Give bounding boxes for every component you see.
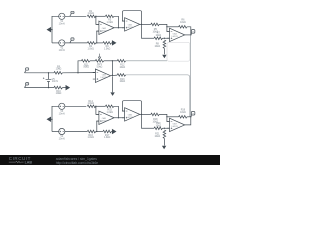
node dot A — [95, 16, 96, 17]
junction OA5 out — [118, 117, 119, 118]
wire R8 to ground — [163, 49, 165, 55]
wire in1 to OA3 - input — [25, 72, 96, 74]
wire node A to OA1 inverting input — [96, 21, 99, 24]
svg-text:LM741: LM741 — [127, 27, 134, 29]
potentiometer RV1 — [95, 60, 104, 63]
svg-text:1.0kΩ: 1.0kΩ — [104, 48, 111, 51]
resistor R8 (vertical to ground) — [163, 40, 166, 49]
svg-text:1.0kΩ: 1.0kΩ — [87, 12, 94, 15]
resistor R20 — [154, 127, 163, 130]
resistor R21 (vertical to ground) — [163, 130, 166, 139]
svg-text:LM741: LM741 — [101, 31, 108, 33]
wire in2 — [25, 87, 54, 89]
wire node C to OA5 - input — [96, 111, 99, 114]
svg-text:LM741: LM741 — [172, 36, 179, 38]
voltage source V2 — [59, 40, 65, 46]
wire long vertical (OA4 out down) — [190, 35, 192, 117]
node flag na — [70, 11, 74, 16]
svg-text:1.0kΩ: 1.0kΩ — [107, 21, 114, 24]
wire RV1 to branch node — [104, 60, 117, 62]
op-amp OA2 (buffer) — [122, 18, 140, 31]
svg-text:1.0kΩ: 1.0kΩ — [87, 136, 94, 139]
svg-text:LM741: LM741 — [127, 117, 134, 119]
junction OA1 out — [118, 27, 119, 28]
junction R19 tap — [166, 116, 167, 117]
svg-text:LM741: LM741 — [101, 77, 108, 79]
resistor R9 — [54, 72, 63, 75]
resistor R16 — [87, 130, 96, 133]
wire V2 right — [65, 42, 87, 44]
wire OA6 feedback box — [123, 101, 142, 115]
label V5 — [52, 78, 59, 83]
svg-text:10kΩ: 10kΩ — [119, 80, 125, 83]
logo LAB line — [9, 161, 24, 163]
op-amp OA4 — [167, 28, 185, 41]
resistor R10 — [54, 86, 63, 89]
wire R1 to node — [95, 16, 97, 21]
node dot C — [95, 106, 96, 107]
wire feedback top bottom-channel — [96, 105, 106, 107]
wire feedback up from junction — [78, 61, 81, 73]
wire R19 right to long wire — [187, 116, 191, 118]
ground (left, rotated) — [47, 28, 52, 32]
junction OA4 out — [190, 34, 191, 35]
junction OA2 out — [141, 24, 142, 25]
resistor R11 (feedback) — [81, 60, 90, 63]
ground (right-pointing) after R17 — [111, 129, 115, 133]
battery V5 between inputs — [48, 73, 50, 88]
wire R18 to OA7 - input — [159, 114, 169, 121]
junction B — [96, 42, 97, 43]
svg-text:10kΩ: 10kΩ — [180, 21, 186, 24]
junction battery bottom — [48, 87, 49, 88]
svg-text:10kΩ: 10kΩ — [154, 45, 160, 48]
ground (right-pointing) after R10 — [62, 86, 69, 90]
junction R21 tap — [164, 128, 165, 129]
wire R3 to output — [114, 16, 119, 27]
wire OA2 feedback box — [123, 11, 142, 25]
wire OA1 output — [114, 27, 125, 29]
svg-text:1.0kΩ: 1.0kΩ — [87, 102, 94, 105]
ground (right-pointing) after R4 — [111, 41, 115, 45]
svg-text:10kΩ: 10kΩ — [119, 66, 125, 69]
wire V1 left rail — [52, 16, 59, 43]
junction OA6 out — [141, 114, 142, 115]
node flag in1 — [25, 68, 29, 73]
node flag in2 — [25, 83, 29, 88]
svg-text:10mV: 10mV — [59, 138, 66, 141]
wire to R6 — [167, 26, 179, 28]
wire OA6 output — [140, 113, 151, 115]
wire OA2 out down to R7 — [142, 24, 155, 38]
resistor R6 (feedback OA4) — [179, 26, 188, 29]
wire R15 to output — [114, 106, 119, 117]
op-amp OA6 (buffer) — [122, 108, 140, 121]
wire OA7 output up to node — [185, 117, 191, 125]
ground below OA3 — [110, 92, 114, 96]
resistor R17 — [103, 130, 112, 133]
wire OA3 + ground path — [112, 76, 114, 92]
resistor R4 — [103, 42, 112, 45]
svg-text:10kΩ: 10kΩ — [155, 34, 161, 37]
wire OA3 output — [111, 74, 118, 77]
junction battery top — [48, 72, 49, 73]
wire V1 right — [65, 15, 86, 17]
op-amp OA1 — [96, 21, 114, 34]
wire branch1 to rect1 — [126, 60, 167, 62]
wire R11 to RV1 — [90, 60, 95, 62]
wire V4 right — [65, 131, 87, 133]
ground below R8 — [162, 55, 166, 59]
svg-text:10mV: 10mV — [59, 49, 66, 52]
probe tag at OA4 output — [191, 30, 195, 35]
junction D — [96, 131, 97, 132]
resistor R15 (feedback OA5) — [105, 105, 114, 108]
wire R5 to OA4 - input — [159, 24, 169, 31]
wire V2 left — [52, 42, 59, 44]
resistor R14 — [87, 105, 96, 108]
svg-text:LM741: LM741 — [101, 121, 108, 123]
wire to R17 — [97, 131, 103, 133]
resistor R2 — [87, 42, 96, 45]
voltage source V4 — [59, 128, 65, 134]
wire branch vertical — [111, 61, 113, 76]
resistor R18 — [151, 113, 160, 116]
wire OA4 output — [185, 34, 191, 36]
resistor R7 — [154, 37, 163, 40]
svg-text:10kΩ: 10kΩ — [180, 111, 186, 114]
junction R8 tap — [164, 38, 165, 39]
resistor R13 (branch2) — [117, 74, 126, 77]
resistor R12 (branch1) — [117, 60, 126, 63]
wire R16 to junction — [96, 131, 97, 133]
svg-text:LAB: LAB — [25, 161, 33, 165]
wire junction B to OA1 + input — [97, 31, 99, 43]
svg-text:50kΩ: 50kΩ — [83, 66, 89, 69]
svg-text:50kΩ: 50kΩ — [97, 65, 103, 68]
wire R14 to node — [95, 106, 97, 111]
op-amp OA3 — [93, 69, 111, 82]
junction branch2 — [112, 75, 113, 76]
wire to R4 — [97, 42, 103, 44]
junction OA7 feedback node — [190, 116, 191, 117]
svg-text:http://circuitlab.com/c4w3k6e: http://circuitlab.com/c4w3k6e — [56, 161, 98, 165]
wire OA2 output — [140, 23, 151, 25]
wire R6 down to output — [187, 27, 191, 35]
ground (left, rotated) bottom — [47, 117, 52, 121]
resistor R19 (feedback OA7) — [179, 116, 188, 119]
wire branch2 to rect2 — [126, 75, 190, 117]
junction R6 tap — [166, 26, 167, 27]
voltage source V3 — [59, 103, 65, 109]
svg-text:10kΩ: 10kΩ — [56, 68, 62, 71]
resistor R5 — [151, 23, 160, 26]
op-amp OA5 — [96, 111, 114, 124]
svg-text:10mV: 10mV — [59, 112, 66, 115]
footer bar background — [0, 155, 220, 165]
svg-text:10kΩ: 10kΩ — [155, 125, 161, 128]
resistor R1 — [87, 15, 96, 18]
wire to R19 — [167, 116, 179, 118]
wire feedback top — [96, 15, 106, 17]
junction branch1 — [112, 60, 113, 61]
wire junction D to OA5 + input — [97, 121, 99, 131]
probe tag at bottom output — [191, 112, 195, 117]
wire OA6 out down to R20 — [142, 114, 155, 128]
wire R2 to junction — [96, 42, 97, 44]
svg-text:1.0kΩ: 1.0kΩ — [87, 48, 94, 51]
svg-text:1.0kΩ: 1.0kΩ — [107, 111, 114, 114]
wire R21 to ground — [163, 139, 165, 146]
wire V3 left rail — [52, 106, 59, 131]
wire V4 left — [52, 131, 59, 133]
node flag nb — [70, 38, 74, 43]
junction feedback left — [77, 72, 78, 73]
svg-text:LM741: LM741 — [172, 126, 179, 128]
ground below R21 — [162, 146, 166, 150]
svg-text:10kΩ: 10kΩ — [154, 135, 160, 138]
wire OA5 output — [114, 117, 125, 119]
svg-text:10mV: 10mV — [52, 80, 59, 83]
op-amp OA7 — [167, 118, 185, 131]
wire R7 to OA4 + input — [163, 37, 170, 39]
wire V3 right — [65, 105, 86, 107]
svg-text:10kΩ: 10kΩ — [56, 92, 62, 95]
wire R20 to OA7 + input — [163, 127, 170, 129]
svg-text:10mV: 10mV — [59, 22, 66, 25]
annotation rect 1 — [167, 42, 190, 61]
voltage source V1 — [59, 13, 65, 19]
resistor R3 (feedback OA1) — [105, 15, 114, 18]
svg-text:1.0kΩ: 1.0kΩ — [104, 136, 111, 139]
